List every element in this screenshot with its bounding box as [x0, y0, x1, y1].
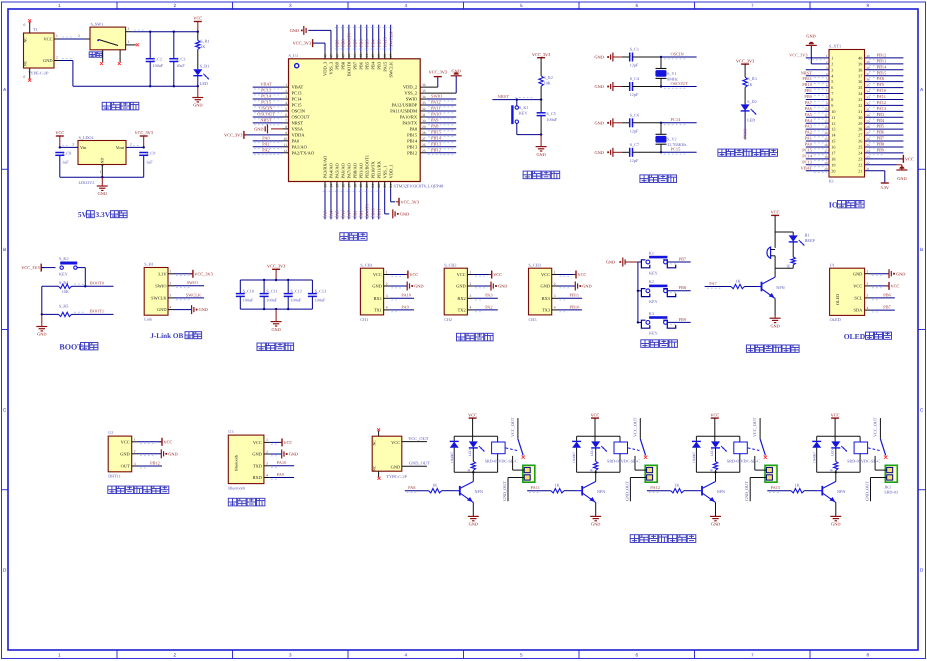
capacitor S_C7 12pF — [622, 151, 630, 153]
svg-text:VCC_3V3: VCC_3V3 — [736, 58, 754, 63]
svg-text:B1: B1 — [805, 233, 810, 238]
svg-text:VCC_OUT: VCC_OUT — [510, 417, 515, 437]
ground GND (relay K2) — [590, 516, 601, 520]
svg-text:12: 12 — [283, 149, 287, 153]
svg-text:PA8: PA8 — [408, 485, 416, 490]
svg-text:GND: GND — [595, 84, 604, 89]
svg-text:1: 1 — [867, 270, 869, 274]
svg-text:S_R2: S_R2 — [544, 75, 553, 80]
wire R3 to LED D2 — [744, 87, 746, 104]
node NRST junction — [540, 98, 542, 100]
svg-text:VDDA: VDDA — [292, 132, 306, 137]
title: temperature-humidity module — [108, 486, 116, 493]
svg-text:TXD: TXD — [253, 463, 262, 468]
svg-text:4: 4 — [266, 473, 268, 477]
svg-text:VBAT: VBAT — [801, 165, 813, 170]
svg-text:PA9: PA9 — [401, 304, 409, 309]
svg-text:GND: GND — [591, 522, 600, 527]
svg-text:1K: 1K — [432, 483, 437, 488]
svg-text:GND: GND — [582, 284, 591, 289]
ground flag right of MCU — [451, 75, 462, 77]
svg-text:GND: GND — [770, 323, 779, 328]
power flag VCC_3V3 (indicator) — [741, 63, 749, 65]
wire emitter to ground (relay K3) — [715, 502, 717, 516]
svg-text:PB4: PB4 — [370, 61, 375, 70]
svg-text:PB13: PB13 — [877, 58, 888, 63]
power flag VCC_3V3 top of MCU — [312, 39, 314, 47]
svg-text:OLED: OLED — [844, 332, 866, 341]
svg-text:VDD_1: VDD_1 — [388, 164, 393, 178]
svg-text:OSCOUT: OSCOUT — [292, 115, 310, 120]
switch S_SW1 — [90, 27, 126, 50]
svg-text:8: 8 — [831, 97, 833, 102]
svg-text:PA2: PA2 — [485, 304, 492, 309]
svg-text:21: 21 — [858, 168, 862, 173]
relay coil K4 SRD-05VDC-SL-C — [859, 436, 861, 442]
resistor S_R2 10K — [539, 76, 543, 87]
svg-text:LED: LED — [590, 449, 594, 456]
ground GND (BOOT) — [41, 314, 43, 326]
crystal S_Y2 32.768KHz — [660, 123, 662, 135]
svg-text:GND_OUT: GND_OUT — [744, 481, 749, 501]
ground flag at VSSA — [283, 128, 289, 130]
title: reset circuit — [523, 171, 531, 179]
wire collector (relay K1) — [472, 472, 474, 481]
svg-text:PB7: PB7 — [877, 136, 885, 141]
relay K4 switch common VCC_OUT — [879, 418, 881, 439]
svg-text:DHT11: DHT11 — [108, 474, 121, 479]
power flag VCC — [491, 271, 493, 279]
svg-text:S_CH1: S_CH1 — [360, 262, 372, 267]
power flag VCC at XT1 pin 23 — [902, 155, 904, 163]
key K2 KEY — [637, 290, 639, 292]
resistor 1K (alarm LED) — [792, 242, 794, 257]
svg-text:1: 1 — [58, 653, 61, 658]
svg-text:BOOT1: BOOT1 — [90, 309, 104, 314]
svg-text:VCC: VCC — [905, 156, 914, 161]
power flag VCC (DHT11) — [161, 438, 163, 446]
svg-text:VCC_3V3: VCC_3V3 — [401, 199, 419, 204]
svg-text:GND: GND — [157, 307, 167, 312]
svg-text:1K: 1K — [735, 278, 740, 283]
wire Vout pin 2 to VCC_3V3 — [126, 146, 144, 148]
svg-text:PB6: PB6 — [883, 292, 891, 297]
svg-text:VCC: VCC — [409, 272, 418, 277]
svg-text:PB15: PB15 — [431, 129, 442, 134]
svg-text:28: 28 — [422, 131, 426, 135]
svg-text:28: 28 — [858, 127, 862, 132]
svg-text:GND: GND — [540, 284, 550, 289]
svg-text:Vin: Vin — [80, 145, 87, 150]
svg-text:VDD_3: VDD_3 — [323, 61, 328, 76]
title: key circuit — [641, 340, 649, 348]
ground GND (reset) — [536, 147, 547, 151]
svg-text:GND: GND — [254, 126, 263, 131]
svg-text:PA7: PA7 — [709, 281, 717, 286]
svg-text:PB1: PB1 — [804, 88, 812, 93]
svg-text:1N4007: 1N4007 — [812, 452, 816, 463]
svg-text:23: 23 — [858, 156, 862, 161]
resistor 1K (relay K1 LED) — [472, 448, 474, 461]
svg-text:NPN: NPN — [475, 489, 483, 494]
svg-text:3: 3 — [289, 3, 292, 8]
svg-text:VCC_3V3: VCC_3V3 — [21, 265, 39, 270]
svg-text:PA7: PA7 — [805, 100, 813, 105]
wire terminal to GND_OUT (relay K3) — [750, 477, 766, 479]
svg-text:25: 25 — [866, 143, 870, 147]
title: main chip — [340, 233, 348, 241]
svg-text:VCC: VCC — [284, 440, 293, 445]
svg-text:25: 25 — [422, 149, 426, 153]
header S_CH1 — [360, 268, 383, 315]
svg-text:PB9: PB9 — [335, 61, 340, 70]
header S_CH3 — [529, 268, 552, 315]
svg-text:27: 27 — [858, 133, 862, 138]
relay coil K1 SRD-05VDC-SL-C — [497, 436, 499, 442]
svg-text:NPN: NPN — [597, 489, 605, 494]
svg-text:GND: GND — [896, 271, 905, 276]
resistor 1K (relay K4 LED) — [835, 448, 837, 461]
net label PB8 wire — [667, 290, 690, 292]
resistor 1K (relay K4 base) — [791, 489, 804, 493]
svg-text:PB6: PB6 — [358, 39, 363, 47]
svg-text:VCC: VCC — [771, 210, 780, 215]
relay K4 switch arm — [880, 439, 885, 456]
svg-text:S_K2: S_K2 — [59, 256, 69, 261]
svg-text:OLED: OLED — [835, 294, 840, 305]
svg-text:1: 1 — [470, 270, 472, 274]
svg-text:1: 1 — [266, 438, 268, 442]
svg-text:PB8: PB8 — [341, 39, 346, 47]
svg-text:4: 4 — [170, 305, 172, 309]
svg-text:GND: GND — [595, 55, 604, 60]
net label PB7 wire — [667, 261, 690, 263]
relay K2 top rail — [577, 435, 620, 437]
ground flag bottom of MCU — [393, 209, 395, 218]
LED S_D2 — [741, 104, 750, 110]
power flag VCC (relay K3) — [711, 417, 719, 419]
svg-text:37: 37 — [858, 73, 862, 78]
svg-text:PA1/AO: PA1/AO — [292, 144, 308, 149]
svg-text:PB8: PB8 — [679, 285, 687, 290]
svg-text:GND: GND — [290, 28, 299, 33]
svg-text:PB12: PB12 — [407, 150, 417, 155]
svg-text:LED: LED — [830, 449, 834, 456]
wire VSS_3 to GND flag top — [330, 30, 332, 51]
svg-text:PB1/AO: PB1/AO — [358, 162, 363, 178]
svg-text:S_Y2: S_Y2 — [667, 137, 677, 142]
power flag VCC (relay K2) — [591, 417, 599, 419]
svg-text:S_SW1: S_SW1 — [91, 21, 104, 26]
ground flag at XT1 pin 2 — [806, 44, 817, 46]
svg-text:OLED: OLED — [830, 317, 841, 322]
svg-text:PB8: PB8 — [877, 142, 885, 147]
wire VSS_1 to GND flag bottom — [384, 188, 386, 214]
svg-text:30: 30 — [422, 119, 426, 123]
transistor NPN (relay K2) — [581, 486, 583, 496]
svg-text:3: 3 — [285, 95, 287, 99]
resistor 1K (relay K3 base) — [671, 489, 684, 493]
wire VDD_2 to VCC_3V3 flag — [420, 86, 438, 88]
svg-text:S_LDO1: S_LDO1 — [79, 135, 94, 140]
net label BOOT0 wire — [85, 285, 113, 287]
svg-text:KEY: KEY — [649, 299, 658, 304]
svg-text:VCC_3V3: VCC_3V3 — [194, 271, 212, 276]
svg-text:SWIO: SWIO — [187, 280, 198, 285]
svg-text:NPN: NPN — [837, 489, 845, 494]
svg-text:NC: NC — [24, 37, 28, 43]
svg-text:1K: 1K — [555, 483, 560, 488]
svg-text:PA10: PA10 — [431, 112, 441, 117]
svg-text:GND: GND — [595, 120, 604, 125]
power flag 3.3V at XT1 pin 21 — [881, 182, 889, 184]
wire terminal to GND_OUT (relay K4) — [871, 477, 887, 479]
svg-text:PA8: PA8 — [410, 126, 418, 131]
header S_H1 J-Link — [144, 268, 168, 316]
svg-text:PC14: PC14 — [671, 117, 682, 122]
svg-text:S_D2: S_D2 — [747, 99, 757, 104]
svg-text:PC14: PC14 — [802, 153, 813, 158]
svg-text:32: 32 — [858, 103, 862, 108]
wire key to BOOT0 node — [77, 267, 85, 269]
relay K3 switch common VCC_OUT — [759, 418, 761, 439]
svg-text:VCC_3V3: VCC_3V3 — [293, 41, 311, 46]
svg-text:4: 4 — [470, 306, 472, 310]
svg-text:PC13: PC13 — [743, 128, 748, 139]
flyback diode 1N4007 (relay K4) — [816, 436, 818, 441]
module U2 DHT11 — [108, 436, 132, 472]
svg-text:PA11: PA11 — [877, 94, 886, 99]
svg-text:S_H1: S_H1 — [144, 262, 154, 267]
svg-text:VCC_OUT: VCC_OUT — [752, 417, 757, 437]
relay K1 bottom rail — [454, 471, 497, 473]
wire VCC to Vin pin 3 — [60, 146, 78, 148]
svg-text:GND: GND — [391, 465, 401, 470]
svg-text:GND: GND — [120, 451, 130, 456]
relay K3 top rail — [696, 435, 739, 437]
LED (relay K4) — [834, 436, 836, 441]
crystal S_Y1 8MHz — [660, 57, 662, 69]
svg-text:VCC: VCC — [391, 440, 400, 445]
svg-text:NC: NC — [24, 60, 28, 66]
wire emitter to ground — [774, 299, 776, 317]
svg-text:PA6: PA6 — [805, 106, 813, 111]
svg-text:PA3: PA3 — [485, 293, 493, 298]
svg-text:VCC: VCC — [591, 412, 600, 417]
svg-text:GND: GND — [711, 522, 720, 527]
capacitor S_C8 1uF — [55, 153, 64, 156]
svg-text:29: 29 — [422, 125, 426, 129]
svg-text:OSCOUT: OSCOUT — [671, 81, 689, 86]
svg-text:S_C2: S_C2 — [153, 57, 162, 62]
wire emitter to ground (relay K2) — [595, 502, 597, 516]
svg-text:GND: GND — [193, 103, 202, 108]
svg-text:VCC_3V3: VCC_3V3 — [267, 264, 285, 269]
svg-text:PC15: PC15 — [802, 147, 813, 152]
wire R1 to LED D1 — [197, 49, 199, 69]
pin stub T1 NC top — [29, 22, 31, 33]
svg-text:PB3: PB3 — [376, 61, 381, 70]
svg-text:S_C11: S_C11 — [266, 288, 277, 293]
node junction OSCIN — [660, 56, 662, 58]
svg-text:12pF: 12pF — [630, 158, 639, 163]
pin stub T2 top NC — [378, 431, 380, 436]
alarm bottom rail — [775, 267, 793, 269]
svg-text:4: 4 — [386, 306, 388, 310]
svg-text:30: 30 — [858, 115, 862, 120]
svg-text:SDA: SDA — [854, 308, 864, 313]
svg-text:VCC_3V3: VCC_3V3 — [224, 132, 242, 137]
svg-text:PA10: PA10 — [877, 88, 887, 93]
svg-text:3: 3 — [289, 653, 292, 658]
svg-text:S_C4: S_C4 — [630, 76, 640, 81]
svg-text:SWCLK: SWCLK — [186, 292, 202, 297]
svg-text:S_K1: S_K1 — [519, 105, 529, 110]
svg-text:NRST: NRST — [260, 118, 272, 123]
svg-text:GND: GND — [98, 191, 107, 196]
svg-text:TYPE-C-2P: TYPE-C-2P — [386, 474, 407, 479]
alarm top rail — [775, 231, 793, 233]
svg-text:2: 2 — [266, 450, 268, 454]
svg-text:1: 1 — [554, 270, 556, 274]
svg-text:13: 13 — [831, 127, 835, 132]
svg-text:5: 5 — [285, 107, 287, 111]
svg-text:GND: GND — [43, 58, 53, 63]
svg-text:4: 4 — [867, 306, 869, 310]
svg-text:S_C1: S_C1 — [630, 47, 639, 52]
title: relay control circuit — [630, 535, 639, 543]
transistor NPN (relay K1) — [459, 486, 461, 496]
svg-text:OSCIN: OSCIN — [671, 51, 685, 56]
svg-text:8: 8 — [866, 653, 869, 658]
svg-text:29: 29 — [858, 121, 862, 126]
svg-text:1K: 1K — [795, 483, 800, 488]
svg-text:PA12: PA12 — [877, 100, 887, 105]
wire VDD_3 to VCC_3V3 flag top — [324, 43, 326, 51]
svg-text:OSCIN: OSCIN — [259, 106, 273, 111]
svg-text:KEY: KEY — [59, 271, 68, 276]
svg-text:19: 19 — [831, 162, 835, 167]
svg-text:PA13: PA13 — [877, 106, 887, 111]
wire collector (relay K3) — [715, 472, 717, 481]
transistor NPN (relay K4) — [821, 486, 823, 496]
net label PA12 base wire — [647, 490, 671, 492]
connector T2 TYPE-C-2P (relay power) — [372, 436, 402, 471]
power flag VCC (BT) — [281, 438, 283, 446]
ground GND (relay K1) — [468, 516, 479, 520]
svg-text:NC: NC — [373, 465, 377, 471]
relay K1 switch arm — [518, 439, 523, 456]
svg-text:PB12: PB12 — [150, 460, 160, 465]
power flag VCC_3V3 (BOOT) — [40, 264, 42, 272]
svg-text:GND: GND — [606, 260, 615, 265]
capacitor S_C1 12pF — [622, 56, 630, 58]
svg-text:GND_OUT: GND_OUT — [409, 461, 430, 466]
svg-text:2: 2 — [130, 143, 132, 147]
ground flag GND — [407, 282, 409, 291]
net label PA11 base wire — [527, 490, 551, 492]
wire H1 pin4 to GND flag — [174, 309, 192, 311]
svg-text:PA10/RX: PA10/RX — [400, 115, 418, 120]
svg-text:36: 36 — [422, 83, 426, 87]
MCU U1 STM32F103C8T6 LQFP48 body — [289, 59, 421, 182]
svg-text:S_R3: S_R3 — [747, 76, 756, 81]
ground flag top of MCU — [304, 26, 306, 35]
svg-text:12pF: 12pF — [630, 63, 639, 68]
svg-text:S_D1: S_D1 — [200, 64, 210, 69]
svg-text:1N4007: 1N4007 — [692, 452, 696, 463]
svg-text:S_U1: S_U1 — [289, 53, 299, 58]
svg-text:PB6: PB6 — [877, 130, 885, 135]
svg-text:VCC: VCC — [468, 412, 477, 417]
svg-text:1: 1 — [386, 270, 388, 274]
svg-text:PA11: PA11 — [531, 485, 540, 490]
svg-text:PA9: PA9 — [431, 118, 439, 123]
svg-text:4: 4 — [404, 653, 407, 658]
svg-text:GND_OUT: GND_OUT — [865, 481, 870, 501]
svg-text:1: 1 — [831, 56, 833, 61]
svg-text:PB7: PB7 — [352, 39, 357, 47]
svg-text:3.3V: 3.3V — [881, 185, 890, 190]
svg-text:4: 4 — [404, 3, 407, 8]
svg-text:VSS_1: VSS_1 — [382, 166, 387, 179]
svg-text:PB9: PB9 — [335, 39, 340, 47]
svg-text:GND: GND — [199, 307, 208, 312]
svg-text:PA11: PA11 — [431, 106, 440, 111]
svg-text:K1: K1 — [649, 250, 654, 255]
power flag VCC_3V3 (LDO output) — [140, 135, 148, 137]
svg-text:22: 22 — [858, 162, 862, 167]
svg-text:BEEP: BEEP — [805, 238, 816, 243]
relay K3 bottom rail — [696, 471, 739, 473]
svg-text:3: 3 — [831, 67, 833, 72]
svg-text:GND_OUT: GND_OUT — [502, 481, 507, 501]
svg-text:PB4: PB4 — [877, 118, 885, 123]
svg-text:PC14: PC14 — [261, 94, 272, 99]
power flag VCC (alarm) — [771, 214, 779, 216]
svg-text:PB15: PB15 — [407, 132, 418, 137]
svg-text:OSCOUT: OSCOUT — [257, 112, 275, 117]
resistor 1K (relay K2 base) — [551, 489, 564, 493]
svg-text:T1: T1 — [33, 27, 38, 32]
svg-text:19: 19 — [824, 161, 828, 165]
svg-text:PB5: PB5 — [364, 39, 369, 47]
svg-text:KEY: KEY — [649, 270, 658, 275]
svg-text:PC13: PC13 — [292, 91, 303, 96]
ground flag GND (BT) — [282, 450, 284, 459]
relay coil K2 SRD-05VDC-SL-C — [619, 436, 621, 442]
node junction OSCOUT — [660, 85, 662, 87]
switch NC pin with no-connect X — [126, 44, 136, 46]
capacitor S_C2 100uF — [149, 32, 151, 59]
svg-text:PA0: PA0 — [805, 142, 813, 147]
svg-text:U3: U3 — [228, 429, 233, 434]
svg-text:7: 7 — [751, 653, 754, 658]
svg-text:S_CH3: S_CH3 — [529, 262, 541, 267]
svg-text:S_CH2: S_CH2 — [444, 262, 456, 267]
svg-text:4: 4 — [285, 101, 287, 105]
net label PA7 base wire — [705, 286, 731, 288]
svg-text:J-Link OB: J-Link OB — [150, 332, 183, 340]
relay K4 bottom rail — [817, 471, 860, 473]
svg-text:VCC_3V3: VCC_3V3 — [135, 130, 153, 135]
wire T1 VCC to switch SW1 — [54, 38, 60, 40]
svg-text:38: 38 — [858, 67, 862, 72]
svg-text:GND: GND — [452, 68, 461, 73]
bottom rail of power circuit — [73, 85, 198, 87]
svg-text:NRST: NRST — [498, 94, 510, 99]
svg-text:SWIO: SWIO — [155, 283, 166, 288]
